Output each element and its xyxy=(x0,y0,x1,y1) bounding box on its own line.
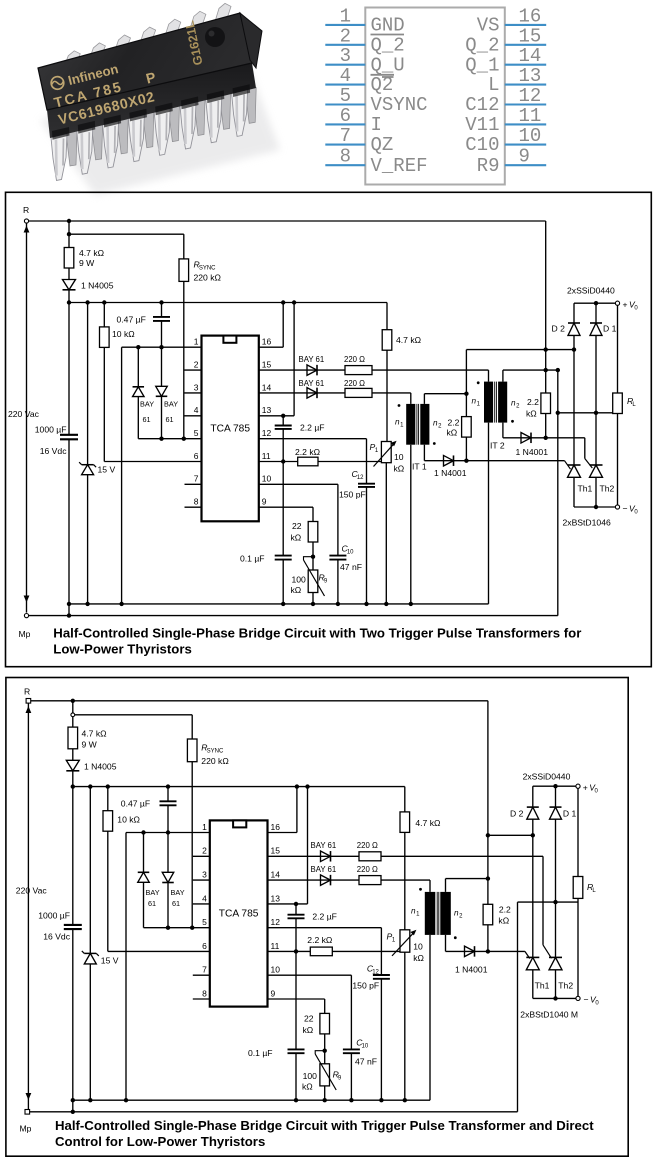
svg-text:7: 7 xyxy=(340,125,351,147)
svg-text:14: 14 xyxy=(262,382,272,392)
svg-text:7: 7 xyxy=(202,965,207,975)
svg-text:3: 3 xyxy=(194,382,199,392)
svg-text:2: 2 xyxy=(202,846,207,856)
svg-text:4.7 kΩ: 4.7 kΩ xyxy=(396,335,422,345)
svg-text:0.1 µF: 0.1 µF xyxy=(240,554,265,564)
svg-text:220 Ω: 220 Ω xyxy=(344,355,365,364)
svg-text:TCA 785: TCA 785 xyxy=(210,424,250,435)
svg-text:220 Ω: 220 Ω xyxy=(357,865,378,874)
svg-text:V11: V11 xyxy=(465,114,499,136)
svg-text:6: 6 xyxy=(202,941,207,951)
svg-text:4: 4 xyxy=(340,65,351,87)
svg-text:1 N4005: 1 N4005 xyxy=(84,762,117,772)
svg-text:2.2 kΩ: 2.2 kΩ xyxy=(307,935,333,945)
svg-text:Half-Controlled Single-Phase B: Half-Controlled Single-Phase Bridge Circ… xyxy=(53,626,581,641)
svg-text:10: 10 xyxy=(262,474,272,484)
svg-text:220 Vac: 220 Vac xyxy=(16,886,48,896)
svg-text:6: 6 xyxy=(340,105,351,127)
svg-text:11: 11 xyxy=(271,941,280,951)
svg-text:1 N4005: 1 N4005 xyxy=(81,281,114,291)
svg-text:D 2: D 2 xyxy=(510,809,524,819)
svg-text:kΩ: kΩ xyxy=(498,916,509,926)
svg-text:16: 16 xyxy=(519,5,542,27)
svg-text:Half-Controlled Single-Phase B: Half-Controlled Single-Phase Bridge Circ… xyxy=(55,1118,594,1133)
svg-text:10 kΩ: 10 kΩ xyxy=(117,815,140,825)
svg-text:14: 14 xyxy=(519,45,542,67)
svg-text:BAY 61: BAY 61 xyxy=(299,355,325,364)
svg-text:C12: C12 xyxy=(465,94,499,116)
svg-text:14: 14 xyxy=(271,870,281,880)
svg-text:100: 100 xyxy=(292,575,307,585)
svg-text:BAY: BAY xyxy=(164,400,178,409)
svg-text:+: + xyxy=(623,300,628,310)
svg-text:12: 12 xyxy=(357,475,364,481)
svg-text:15: 15 xyxy=(271,846,281,856)
svg-text:TCA 785: TCA 785 xyxy=(219,909,259,920)
svg-text:11: 11 xyxy=(262,451,271,461)
svg-text:5: 5 xyxy=(194,428,199,438)
svg-text:kΩ: kΩ xyxy=(303,1025,314,1035)
svg-text:IT 1: IT 1 xyxy=(412,462,427,472)
svg-text:BAY 61: BAY 61 xyxy=(311,865,337,874)
svg-text:2.2: 2.2 xyxy=(527,397,539,407)
svg-text:61: 61 xyxy=(166,415,174,424)
svg-text:kΩ: kΩ xyxy=(302,1082,313,1092)
svg-text:220 kΩ: 220 kΩ xyxy=(194,273,222,283)
svg-text:I: I xyxy=(371,114,382,136)
svg-text:61: 61 xyxy=(172,899,180,908)
svg-text:GND: GND xyxy=(371,15,405,37)
svg-text:10: 10 xyxy=(519,125,542,147)
svg-text:61: 61 xyxy=(148,899,156,908)
svg-text:2.2 µF: 2.2 µF xyxy=(300,423,325,433)
svg-text:BAY 61: BAY 61 xyxy=(311,841,337,850)
svg-text:BAY: BAY xyxy=(146,888,160,897)
svg-text:SYNC: SYNC xyxy=(199,265,216,271)
svg-text:+: + xyxy=(583,783,588,793)
svg-text:R9: R9 xyxy=(477,155,500,177)
svg-text:Th1: Th1 xyxy=(578,484,593,494)
svg-text:3: 3 xyxy=(340,45,351,67)
svg-text:9 W: 9 W xyxy=(82,740,98,750)
svg-text:VS: VS xyxy=(477,15,500,37)
svg-text:5: 5 xyxy=(340,85,351,107)
svg-text:Q_U: Q_U xyxy=(371,54,405,76)
svg-text:8: 8 xyxy=(194,497,199,507)
svg-text:D 1: D 1 xyxy=(563,809,577,819)
svg-text:10: 10 xyxy=(271,965,281,975)
svg-text:13: 13 xyxy=(262,405,272,415)
svg-text:150 pF: 150 pF xyxy=(339,490,366,500)
svg-text:SYNC: SYNC xyxy=(207,748,224,754)
svg-text:220 Vac: 220 Vac xyxy=(8,409,40,419)
svg-text:Mp: Mp xyxy=(19,629,31,639)
svg-text:Th2: Th2 xyxy=(558,981,573,991)
svg-text:9: 9 xyxy=(519,146,530,168)
svg-text:9 W: 9 W xyxy=(79,258,95,268)
svg-text:BAY: BAY xyxy=(140,400,154,409)
svg-text:R: R xyxy=(23,205,29,215)
svg-text:12: 12 xyxy=(262,428,272,438)
svg-text:0.47 µF: 0.47 µF xyxy=(117,315,146,325)
svg-text:kΩ: kΩ xyxy=(394,464,405,474)
svg-text:10: 10 xyxy=(394,452,404,462)
svg-text:13: 13 xyxy=(271,893,281,903)
svg-text:2: 2 xyxy=(194,360,199,370)
svg-text:100: 100 xyxy=(303,1071,318,1081)
svg-text:Th1: Th1 xyxy=(535,981,550,991)
svg-text:12: 12 xyxy=(271,917,281,927)
svg-text:0.47 µF: 0.47 µF xyxy=(121,799,150,809)
svg-text:C10: C10 xyxy=(465,134,499,156)
svg-text:8: 8 xyxy=(340,146,351,168)
svg-text:IT 2: IT 2 xyxy=(490,441,505,451)
svg-text:4: 4 xyxy=(202,893,207,903)
svg-text:Th2: Th2 xyxy=(600,484,615,494)
svg-text:10: 10 xyxy=(347,549,354,555)
svg-text:10: 10 xyxy=(413,942,423,952)
svg-text:kΩ: kΩ xyxy=(291,585,302,595)
svg-text:15: 15 xyxy=(519,25,542,47)
svg-text:9: 9 xyxy=(271,988,276,998)
svg-text:10: 10 xyxy=(362,1043,369,1049)
svg-text:2xBStD1040 M: 2xBStD1040 M xyxy=(520,1010,578,1020)
svg-text:D 2: D 2 xyxy=(552,324,566,334)
svg-text:Q_2: Q_2 xyxy=(465,34,499,56)
svg-text:16: 16 xyxy=(262,337,272,347)
svg-text:1 N4001: 1 N4001 xyxy=(434,468,467,478)
svg-text:−: − xyxy=(623,504,628,514)
svg-text:10 kΩ: 10 kΩ xyxy=(112,329,135,339)
svg-text:2.2: 2.2 xyxy=(448,418,460,428)
svg-text:15 V: 15 V xyxy=(101,956,119,966)
svg-text:Q_2: Q_2 xyxy=(371,34,405,56)
svg-text:12: 12 xyxy=(519,85,542,107)
svg-text:0.1 µF: 0.1 µF xyxy=(248,1048,273,1058)
svg-text:Low-Power Thyristors: Low-Power Thyristors xyxy=(53,642,192,657)
svg-text:150 pF: 150 pF xyxy=(352,981,379,991)
svg-text:7: 7 xyxy=(194,474,199,484)
svg-text:16 Vdc: 16 Vdc xyxy=(43,932,70,942)
svg-text:D 1: D 1 xyxy=(603,324,617,334)
svg-text:4.7 kΩ: 4.7 kΩ xyxy=(79,248,105,258)
svg-text:6: 6 xyxy=(194,451,199,461)
svg-text:220 Ω: 220 Ω xyxy=(357,841,378,850)
svg-text:220 kΩ: 220 kΩ xyxy=(201,756,229,766)
svg-text:4.7 kΩ: 4.7 kΩ xyxy=(415,818,441,828)
svg-text:1: 1 xyxy=(202,822,207,832)
svg-text:16: 16 xyxy=(271,822,281,832)
svg-text:VSYNC: VSYNC xyxy=(371,94,428,116)
svg-text:1: 1 xyxy=(194,337,199,347)
svg-text:BAY: BAY xyxy=(171,888,185,897)
svg-text:2xBStD1046: 2xBStD1046 xyxy=(563,518,611,528)
svg-text:kΩ: kΩ xyxy=(526,409,537,419)
svg-text:2xSSiD0440: 2xSSiD0440 xyxy=(567,286,615,296)
svg-text:15: 15 xyxy=(262,360,272,370)
svg-text:22: 22 xyxy=(304,1014,314,1024)
svg-text:16 Vdc: 16 Vdc xyxy=(40,446,67,456)
svg-text:1: 1 xyxy=(340,5,351,27)
svg-text:2.2 kΩ: 2.2 kΩ xyxy=(295,447,321,457)
svg-text:Control for Low-Power Thyristo: Control for Low-Power Thyristors xyxy=(55,1134,265,1149)
svg-text:2.2 µF: 2.2 µF xyxy=(312,912,337,922)
svg-text:15 V: 15 V xyxy=(98,465,116,475)
svg-text:2.2: 2.2 xyxy=(499,905,511,915)
svg-text:13: 13 xyxy=(519,65,542,87)
svg-text:220 Ω: 220 Ω xyxy=(344,379,365,388)
svg-text:2xSSiD0440: 2xSSiD0440 xyxy=(523,772,571,782)
svg-text:kΩ: kΩ xyxy=(291,533,302,543)
svg-text:47 nF: 47 nF xyxy=(340,562,362,572)
svg-text:12: 12 xyxy=(372,969,379,975)
svg-text:1000 µF: 1000 µF xyxy=(35,425,67,435)
svg-text:22: 22 xyxy=(292,521,302,531)
svg-text:2: 2 xyxy=(340,25,351,47)
svg-text:47 nF: 47 nF xyxy=(355,1057,377,1067)
svg-text:61: 61 xyxy=(143,415,151,424)
svg-text:1000 µF: 1000 µF xyxy=(38,911,70,921)
svg-text:R: R xyxy=(24,687,30,697)
svg-text:3: 3 xyxy=(202,870,207,880)
svg-text:kΩ: kΩ xyxy=(447,428,458,438)
svg-text:kΩ: kΩ xyxy=(413,953,424,963)
svg-text:11: 11 xyxy=(519,105,542,127)
svg-text:5: 5 xyxy=(202,917,207,927)
svg-text:BAY 61: BAY 61 xyxy=(299,379,325,388)
svg-text:1 N4001: 1 N4001 xyxy=(516,447,549,457)
svg-text:L: L xyxy=(488,74,499,96)
svg-text:9: 9 xyxy=(262,497,267,507)
svg-text:Q_1: Q_1 xyxy=(465,54,499,76)
svg-text:4.7 kΩ: 4.7 kΩ xyxy=(82,729,108,739)
svg-text:4: 4 xyxy=(194,405,199,415)
svg-text:1 N4001: 1 N4001 xyxy=(455,965,488,975)
svg-text:QZ: QZ xyxy=(371,134,394,156)
svg-text:8: 8 xyxy=(202,988,207,998)
svg-text:V_REF: V_REF xyxy=(371,155,428,177)
svg-text:Mp: Mp xyxy=(20,1124,32,1134)
svg-text:−: − xyxy=(584,995,589,1005)
